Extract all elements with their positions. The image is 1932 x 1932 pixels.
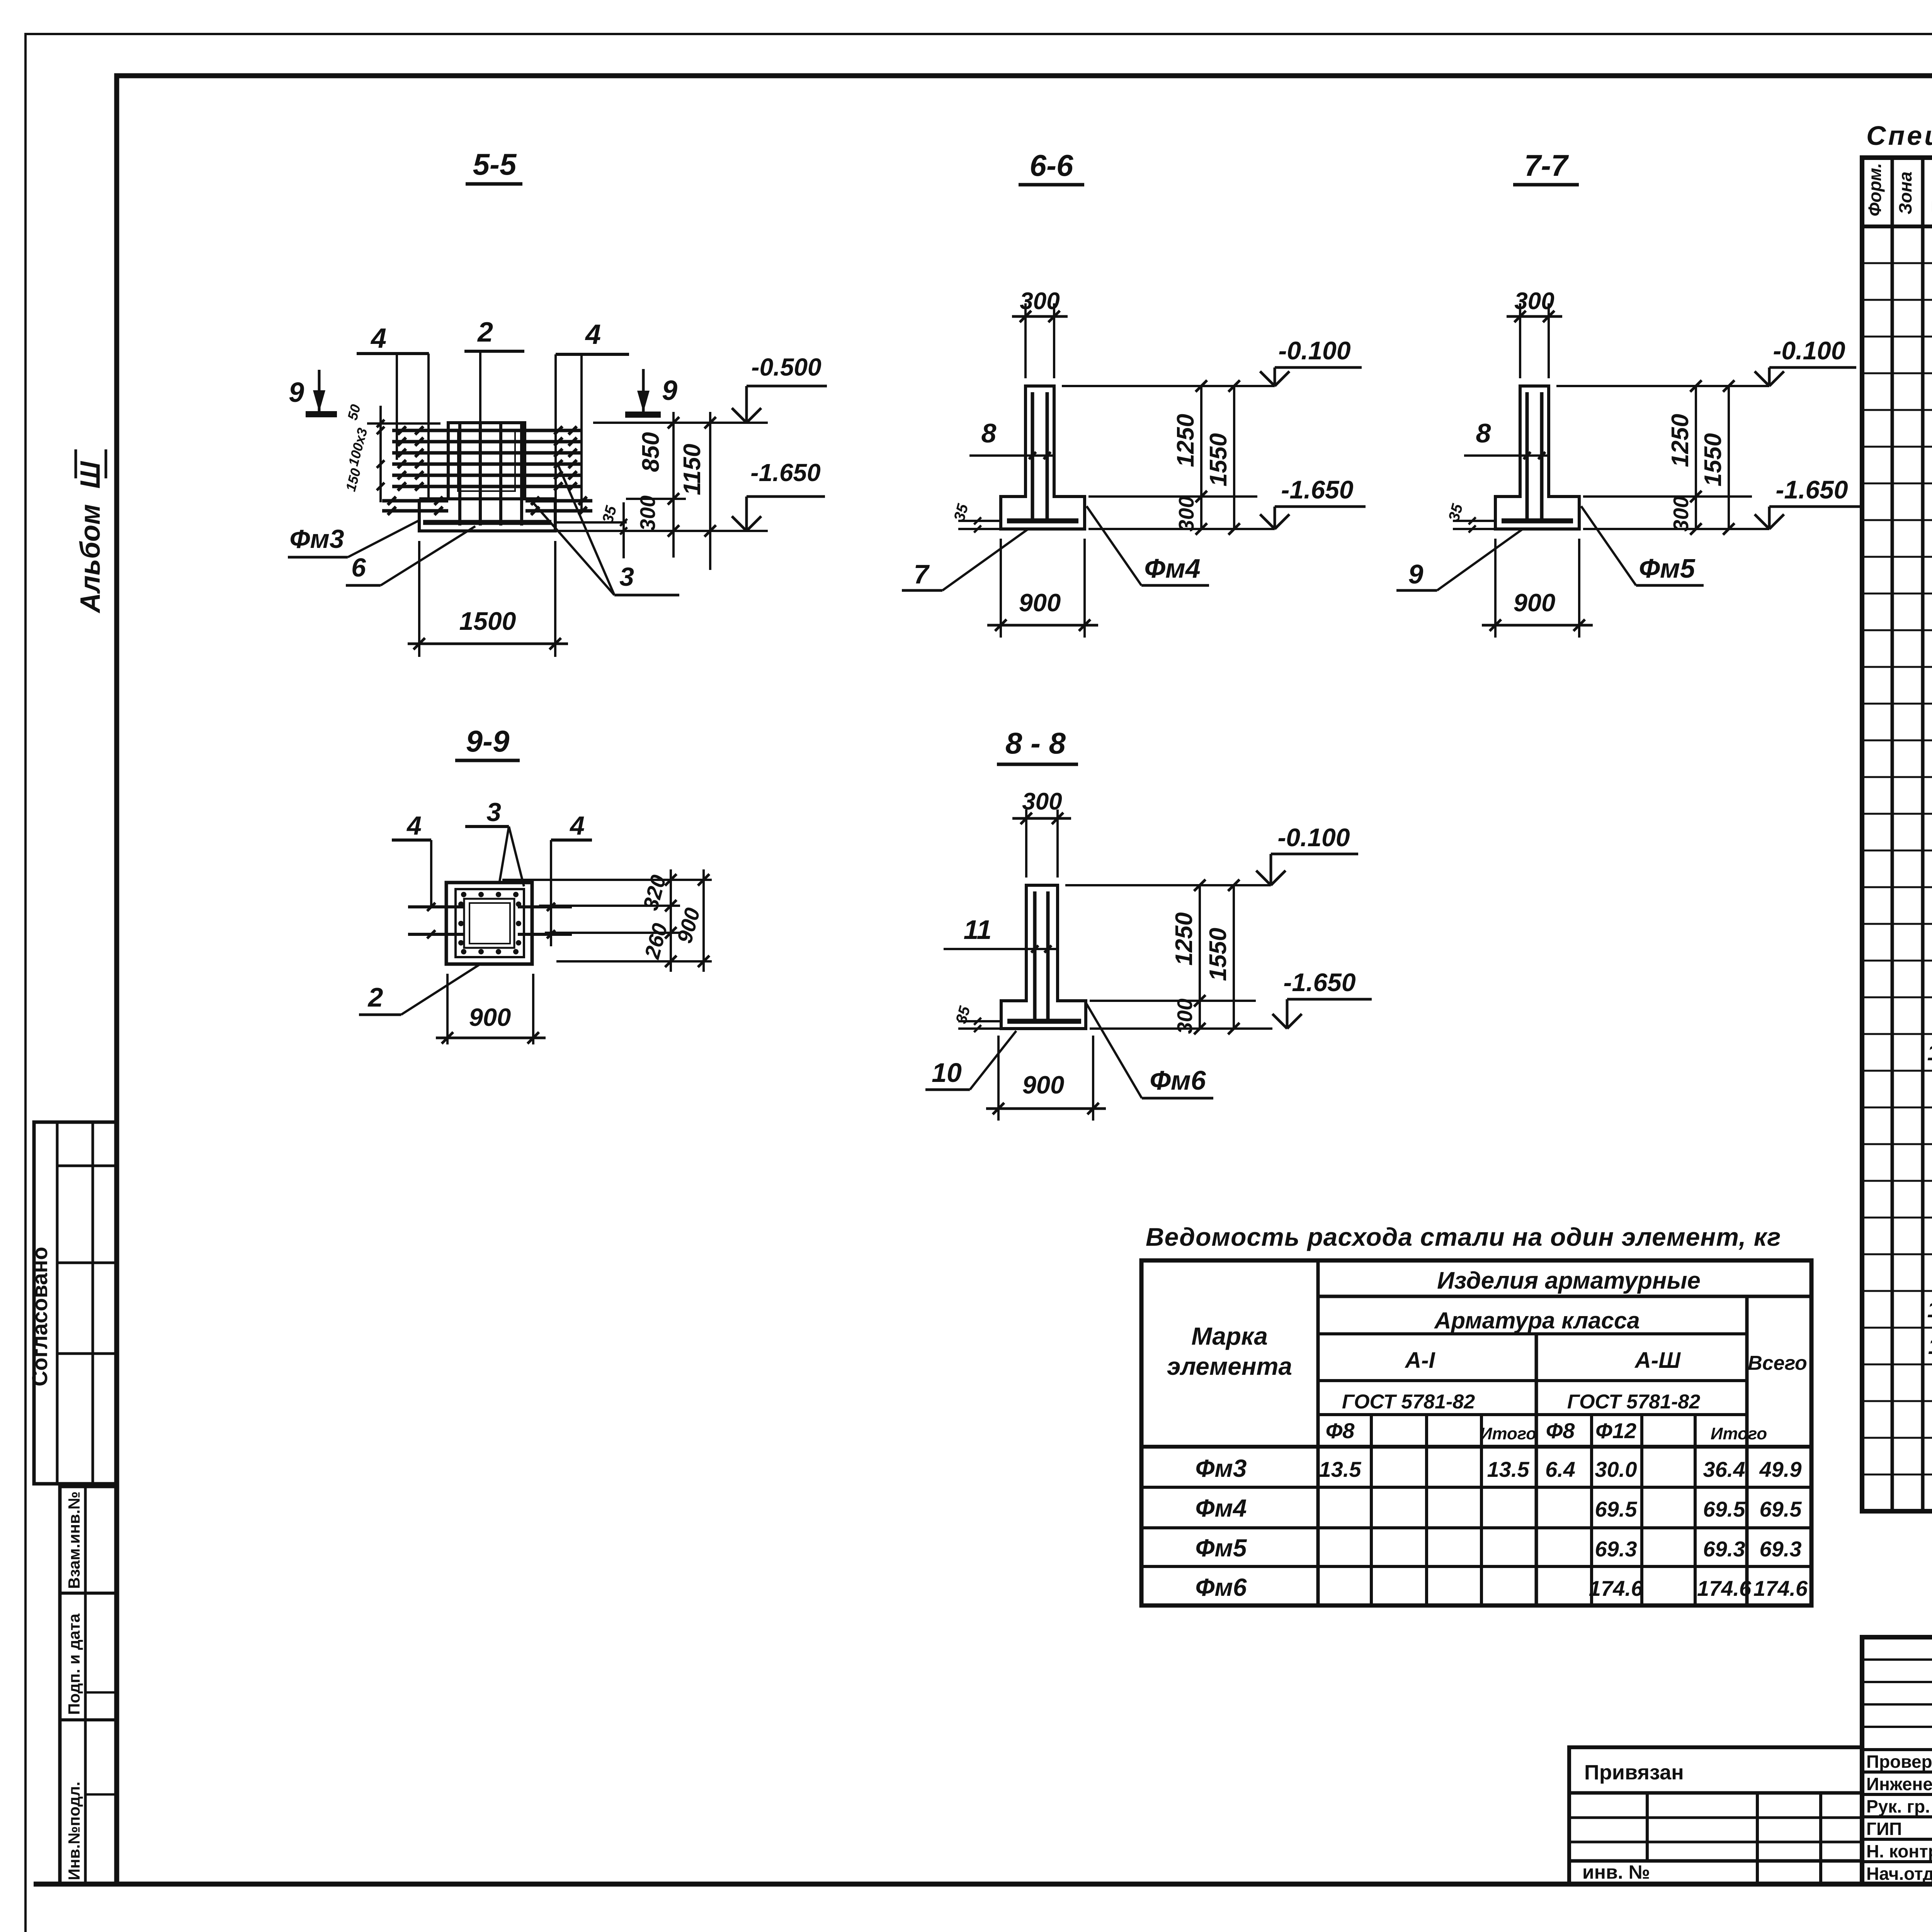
svg-text:9: 9 xyxy=(662,375,677,406)
label 11 bar xyxy=(944,915,1059,952)
section 9 cut marker right xyxy=(625,369,677,415)
svg-text:Фм5: Фм5 xyxy=(1639,553,1695,583)
section 5-5 cut line 4 left xyxy=(357,323,429,499)
svg-text:2: 2 xyxy=(367,982,383,1012)
section 5-5 left small dims xyxy=(342,403,440,502)
svg-text:1550: 1550 xyxy=(1700,433,1726,486)
section 8-8 foundation outline xyxy=(1001,885,1086,1029)
section 8-8 elevation -1.650 xyxy=(1272,968,1372,1029)
svg-text:10: 10 xyxy=(1927,1297,1932,1322)
section 5-5 title xyxy=(466,147,522,184)
section 8-8 right dims xyxy=(1090,879,1272,1034)
svg-text:174.6: 174.6 xyxy=(1589,1576,1643,1600)
label 7 xyxy=(902,529,1028,590)
section 5-5 dim 35 xyxy=(555,502,627,558)
svg-text:10: 10 xyxy=(932,1058,962,1088)
section 7-7 foundation outline xyxy=(1495,386,1579,529)
specification table xyxy=(1862,158,1932,1511)
svg-text:174.6: 174.6 xyxy=(1753,1576,1808,1600)
svg-text:А-I: А-I xyxy=(1404,1348,1435,1373)
svg-text:инв. №: инв. № xyxy=(1582,1861,1650,1883)
svg-text:1500: 1500 xyxy=(459,607,516,635)
svg-text:-1.650: -1.650 xyxy=(750,459,820,486)
section 8-8 dim 35 xyxy=(952,1004,1001,1032)
svg-text:Изделия арматурные: Изделия арматурные xyxy=(1437,1267,1701,1294)
svg-text:Спецификация монолитных уча: Спецификация монолитных участков Фм3÷Фм6 xyxy=(1866,121,1932,151)
steel consumption table xyxy=(1141,1260,1811,1605)
svg-text:А-Ш: А-Ш xyxy=(1634,1348,1681,1373)
spec rows Fm5 xyxy=(1927,929,1932,1175)
section 6-6 right dims 1250 1550 300 xyxy=(1088,380,1275,535)
label Fm6 xyxy=(1087,1004,1213,1098)
svg-text:850: 850 xyxy=(638,432,664,472)
section 6-6 rebar xyxy=(1007,392,1078,523)
svg-text:69.5: 69.5 xyxy=(1760,1497,1802,1521)
svg-text:Подп. и дата: Подп. и дата xyxy=(65,1613,83,1715)
svg-text:-0.100: -0.100 xyxy=(1773,336,1845,365)
svg-text:11: 11 xyxy=(1928,1334,1932,1359)
svg-text:300: 300 xyxy=(1022,788,1062,815)
svg-text:Форм.: Форм. xyxy=(1865,163,1885,216)
svg-text:49.9: 49.9 xyxy=(1759,1457,1802,1481)
svg-text:Фм5: Фм5 xyxy=(1196,1534,1247,1562)
svg-text:8: 8 xyxy=(981,418,997,448)
left stamp vzam/podp/inv xyxy=(60,1486,117,1884)
svg-text:Ф8: Ф8 xyxy=(1326,1418,1355,1443)
title block frame xyxy=(1862,1637,1932,1884)
svg-text:4: 4 xyxy=(370,323,386,354)
svg-text:900: 900 xyxy=(1514,588,1555,617)
svg-text:1250: 1250 xyxy=(1667,414,1694,467)
label 8 bar xyxy=(969,418,1054,459)
section 6-6 dim 35 xyxy=(951,502,1001,532)
section 7-7 dim 900 xyxy=(1482,539,1593,638)
svg-text:элемента: элемента xyxy=(1167,1352,1292,1380)
svg-text:1550: 1550 xyxy=(1205,433,1232,486)
section 6-6 foundation outline xyxy=(1001,386,1085,529)
label 6 xyxy=(346,526,475,585)
svg-text:Всего: Всего xyxy=(1748,1352,1807,1374)
svg-text:4: 4 xyxy=(569,811,585,840)
svg-text:300: 300 xyxy=(1514,288,1554,315)
svg-text:Инженер: Инженер xyxy=(1866,1774,1932,1794)
svg-text:7-7: 7-7 xyxy=(1524,148,1569,182)
svg-text:3: 3 xyxy=(619,562,634,592)
svg-text:ГОСТ 5781-82: ГОСТ 5781-82 xyxy=(1567,1391,1700,1413)
soglasovano stamp xyxy=(27,1122,117,1484)
svg-text:Поз.: Поз. xyxy=(1928,177,1932,214)
section 5-5 cut line 2 xyxy=(464,317,524,452)
section 8-8 dim 900 xyxy=(986,1036,1106,1121)
section 9-9 dim 900 bottom xyxy=(436,974,546,1044)
svg-text:13.5: 13.5 xyxy=(1487,1457,1530,1481)
svg-text:11: 11 xyxy=(964,915,992,945)
section 8-8 rebar xyxy=(1007,891,1081,1023)
section 7-7 rebar xyxy=(1502,392,1573,523)
section 7-7 right dims 1250 1550 300 xyxy=(1583,380,1769,535)
svg-text:6-6: 6-6 xyxy=(1030,148,1073,182)
svg-text:-0.100: -0.100 xyxy=(1278,336,1350,365)
svg-text:1250: 1250 xyxy=(1171,912,1197,966)
section 7-7 elevation -0.100 xyxy=(1556,336,1856,386)
section 9-9 right dims 320 260 900 xyxy=(502,869,712,972)
svg-text:1250: 1250 xyxy=(1172,414,1199,467)
svg-text:Марка: Марка xyxy=(1191,1322,1268,1350)
svg-text:Фм3: Фм3 xyxy=(289,524,344,554)
svg-text:Взам.инв.№: Взам.инв.№ xyxy=(65,1492,83,1589)
section 9-9 title xyxy=(455,724,520,760)
svg-text:Альбом Ш: Альбом Ш xyxy=(75,461,106,614)
svg-text:Инв.№подл.: Инв.№подл. xyxy=(65,1782,83,1880)
svg-text:Фм6: Фм6 xyxy=(1150,1065,1206,1095)
svg-text:900: 900 xyxy=(1022,1071,1064,1099)
album label xyxy=(75,449,106,614)
svg-text:Ведомость расхода стали на оди: Ведомость расхода стали на один элемент,… xyxy=(1146,1223,1781,1251)
svg-text:Фм4: Фм4 xyxy=(1144,553,1200,583)
svg-text:69.3: 69.3 xyxy=(1595,1537,1637,1561)
svg-text:8 - 8: 8 - 8 xyxy=(1005,726,1066,760)
spec rows Fm6 xyxy=(1927,1223,1932,1469)
svg-text:2: 2 xyxy=(477,317,493,348)
section 5-5 dim 1500 xyxy=(408,541,568,657)
steel table title xyxy=(1146,1223,1781,1251)
section 9-9 rebar dots xyxy=(458,892,521,954)
label 3 xyxy=(529,466,679,595)
svg-text:174.6: 174.6 xyxy=(1697,1576,1752,1600)
svg-text:18: 18 xyxy=(1927,1040,1932,1065)
svg-text:13.5: 13.5 xyxy=(1319,1457,1362,1481)
svg-text:Фм4: Фм4 xyxy=(1196,1494,1247,1522)
svg-text:6: 6 xyxy=(351,553,366,582)
svg-text:5-5: 5-5 xyxy=(473,147,517,181)
section 6-6 elevation -1.650 xyxy=(1260,475,1366,529)
label Фм5 xyxy=(1581,506,1704,585)
section 7-7 title xyxy=(1513,148,1579,185)
svg-text:4: 4 xyxy=(585,319,601,350)
section 6-6 title xyxy=(1019,148,1084,185)
section 5-5 cut line 4 right xyxy=(556,319,629,530)
section 9-9 cut 4 left xyxy=(392,811,431,908)
svg-text:69.5: 69.5 xyxy=(1703,1497,1746,1521)
svg-text:Провер.: Провер. xyxy=(1866,1752,1932,1772)
section 8-8 title xyxy=(997,726,1078,764)
section 9-9 cut 4 right xyxy=(551,811,592,946)
svg-text:Итого: Итого xyxy=(1480,1424,1536,1443)
section 5-5 vertical bars xyxy=(460,424,522,526)
svg-text:-1.650: -1.650 xyxy=(1776,475,1848,504)
elevation -1.650 left xyxy=(732,459,825,531)
svg-text:Ф12: Ф12 xyxy=(1595,1418,1636,1443)
svg-text:9: 9 xyxy=(289,377,304,408)
svg-text:69.3: 69.3 xyxy=(1760,1537,1802,1561)
svg-text:Н. контр: Н. контр xyxy=(1866,1841,1932,1861)
section 9-9 crossing bars xyxy=(408,903,572,938)
svg-text:4: 4 xyxy=(406,811,422,840)
svg-text:-0.500: -0.500 xyxy=(751,353,821,381)
specification table title xyxy=(1866,121,1932,151)
svg-text:3: 3 xyxy=(486,798,501,827)
section 8-8 dim 300 top xyxy=(1012,788,1071,878)
svg-text:36.4: 36.4 xyxy=(1703,1457,1745,1481)
svg-text:Фм6: Фм6 xyxy=(1196,1573,1247,1601)
section 5-5 horizontal bars xyxy=(382,426,592,515)
svg-text:Рук. гр.: Рук. гр. xyxy=(1866,1796,1930,1816)
section 9-9 plan squares xyxy=(446,883,532,964)
svg-text:6.4: 6.4 xyxy=(1545,1457,1575,1481)
label Fm3 xyxy=(288,520,420,557)
svg-text:Привязан: Привязан xyxy=(1584,1761,1684,1784)
section 9 cut marker left xyxy=(289,370,337,414)
svg-text:1550: 1550 xyxy=(1205,928,1231,981)
section 8-8 elevation -0.100 xyxy=(1065,823,1358,885)
svg-text:-1.650: -1.650 xyxy=(1281,475,1353,504)
label 9 xyxy=(1396,529,1523,590)
section 6-6 dim 300 top xyxy=(1012,288,1068,378)
svg-text:-0.100: -0.100 xyxy=(1277,823,1350,852)
svg-text:300: 300 xyxy=(1173,998,1197,1034)
svg-text:9-9: 9-9 xyxy=(466,724,510,758)
svg-text:9: 9 xyxy=(1408,559,1423,589)
section 5-5 footing xyxy=(419,499,555,531)
svg-text:Согласовано: Согласовано xyxy=(27,1247,52,1386)
section 7-7 elevation -1.650 xyxy=(1755,475,1860,529)
svg-text:Зона: Зона xyxy=(1895,172,1915,214)
svg-text:Нач.отд: Нач.отд xyxy=(1866,1864,1932,1884)
section 5-5 column outline xyxy=(448,423,525,499)
svg-text:1150: 1150 xyxy=(679,444,706,495)
svg-text:300: 300 xyxy=(1669,496,1693,532)
section 6-6 dim 900 xyxy=(987,539,1098,638)
svg-text:8: 8 xyxy=(1476,418,1491,448)
svg-text:Арматура класса: Арматура класса xyxy=(1434,1308,1640,1333)
section 7-7 dim 35 xyxy=(1445,502,1495,532)
svg-text:300: 300 xyxy=(636,495,660,531)
label 8 bar xyxy=(1464,418,1549,459)
label Фм4 xyxy=(1087,506,1209,585)
svg-text:900: 900 xyxy=(1019,588,1061,617)
section 5-5 right dims 850 1150 300 xyxy=(555,412,768,570)
title block left grid xyxy=(1862,1637,1932,1884)
svg-text:Фм3: Фм3 xyxy=(1196,1454,1247,1482)
section 7-7 dim 300 top xyxy=(1507,288,1562,378)
svg-text:ГОСТ 5781-82: ГОСТ 5781-82 xyxy=(1342,1391,1475,1413)
svg-text:-1.650: -1.650 xyxy=(1283,968,1355,997)
svg-text:300: 300 xyxy=(1174,496,1198,532)
section 9-9 label 3 xyxy=(465,798,524,886)
svg-text:Ф8: Ф8 xyxy=(1546,1418,1575,1443)
privyazan table xyxy=(1569,1747,1862,1884)
svg-text:30.0: 30.0 xyxy=(1595,1457,1637,1481)
label 10 xyxy=(925,1031,1016,1090)
section 9-9 label 2 xyxy=(359,964,480,1015)
svg-text:ГИП: ГИП xyxy=(1866,1819,1902,1839)
svg-text:300: 300 xyxy=(1020,288,1060,315)
svg-text:69.5: 69.5 xyxy=(1595,1497,1638,1521)
svg-text:7: 7 xyxy=(914,559,930,589)
svg-text:69.3: 69.3 xyxy=(1703,1537,1745,1561)
svg-text:900: 900 xyxy=(469,1003,511,1031)
section 6-6 elevation -0.100 xyxy=(1062,336,1362,386)
svg-text:Итого: Итого xyxy=(1711,1424,1767,1443)
elevation -0.500 xyxy=(732,353,827,423)
